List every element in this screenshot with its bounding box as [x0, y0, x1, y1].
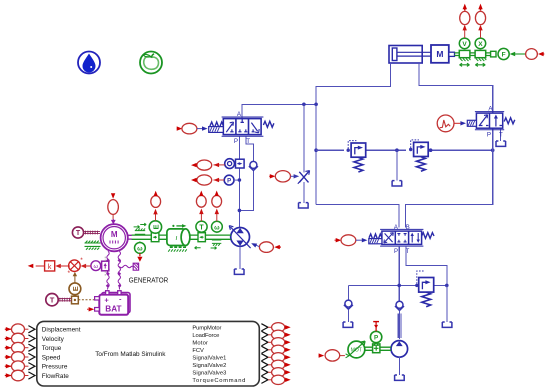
svg-text:FlowRate: FlowRate	[42, 373, 69, 380]
apple icon	[140, 52, 162, 74]
displacement sensor X1	[475, 4, 486, 67]
svg-text:P: P	[234, 138, 238, 145]
battery wire a	[106, 251, 110, 289]
node n7	[238, 178, 242, 182]
force sensor F1	[498, 48, 544, 59]
bottom manifold line	[349, 284, 447, 286]
svg-text:P: P	[374, 335, 378, 342]
output port row 7	[261, 368, 290, 377]
node n8	[238, 209, 242, 213]
check valve CV1	[249, 161, 258, 170]
wire left loop vertical	[315, 104, 317, 204]
node n5	[429, 148, 433, 152]
displacement sensor V1	[459, 4, 470, 67]
input port row 5	[5, 361, 35, 372]
pump P2	[391, 341, 408, 358]
wire U4 T jog right	[406, 246, 447, 285]
svg-text:FCV: FCV	[192, 348, 204, 354]
svg-text:To/From Matlab Simulink: To/From Matlab Simulink	[95, 351, 166, 358]
tank right column	[442, 322, 452, 327]
svg-text:B: B	[406, 225, 410, 231]
output port row 1	[261, 323, 290, 332]
svg-text:P: P	[227, 179, 231, 185]
svg-text:P: P	[394, 249, 398, 255]
tank under pump P1	[234, 269, 244, 274]
torque sensor E1	[149, 191, 161, 234]
electric motor M2	[101, 224, 132, 251]
load resistor R2	[119, 263, 138, 270]
node n1	[302, 103, 306, 107]
input port row 4	[5, 352, 35, 363]
tank under throttle	[299, 203, 309, 208]
wire pump to tank	[239, 246, 241, 269]
swash signal source W4	[250, 241, 281, 252]
relief valve RV2	[409, 140, 428, 171]
output port row 6	[261, 360, 290, 369]
node n2	[314, 103, 318, 107]
wire cylinder left port to junction	[316, 63, 390, 104]
svg-text:k: k	[48, 264, 52, 271]
svg-text:PumpMotor: PumpMotor	[192, 326, 221, 332]
svg-text:TorqueCommand: TorqueCommand	[192, 378, 245, 384]
svg-text:SignalValve3: SignalValve3	[192, 371, 226, 377]
speed sensor W6	[212, 191, 223, 233]
input port row 1	[5, 324, 35, 335]
input port row 6	[5, 370, 35, 381]
tachometer W8	[91, 256, 109, 276]
wire loop bottom	[316, 150, 493, 227]
coupler K1	[151, 233, 159, 242]
relief valve RV1	[347, 141, 366, 172]
svg-text:V: V	[462, 41, 467, 48]
input port row 2	[5, 333, 35, 344]
svg-text:T: T	[76, 230, 81, 237]
power sensor E2	[69, 272, 81, 297]
svg-text:Velocity: Velocity	[42, 336, 65, 343]
pump P1	[229, 226, 250, 249]
svg-text:LoadForce: LoadForce	[192, 333, 219, 339]
simulink interface block	[37, 321, 259, 386]
node n10	[445, 284, 449, 288]
motor MOT1	[346, 341, 366, 358]
node n9	[397, 284, 401, 288]
battery wire b	[118, 251, 122, 289]
node n6	[491, 148, 495, 152]
wire cylinder right port to valve U3 A	[419, 63, 493, 113]
svg-text:BAT: BAT	[105, 305, 121, 314]
svg-text:ω: ω	[214, 224, 220, 231]
wire to tank	[347, 309, 349, 322]
gain k1	[28, 261, 70, 271]
check valve CV3	[395, 301, 404, 310]
shaft MOT to pump	[365, 344, 391, 353]
flow sensor Q1	[191, 159, 244, 170]
relief valve RV3	[415, 271, 434, 307]
relief line	[316, 149, 493, 151]
tank under pump P2	[395, 375, 405, 380]
svg-text:SignalValve2: SignalValve2	[192, 363, 226, 369]
output port row 5	[261, 353, 290, 362]
signal source W1 for throttle	[269, 171, 299, 182]
battery B1	[87, 291, 130, 315]
svg-text:T: T	[499, 132, 503, 139]
valve U3 (2-position)	[467, 106, 515, 139]
tank left suction	[343, 322, 353, 327]
rod link to sensors	[455, 51, 497, 57]
wire pump P2 to tank	[398, 357, 400, 375]
svg-text:ω: ω	[137, 245, 143, 252]
svg-text:ω: ω	[94, 264, 99, 270]
hydraulic fluid icon	[78, 52, 100, 74]
svg-text:E: E	[71, 286, 80, 291]
speed sensor W5	[135, 242, 146, 262]
svg-text:A: A	[394, 225, 398, 231]
svg-text:GENERATOR: GENERATOR	[129, 277, 169, 284]
signal source W10 for motor	[319, 350, 345, 361]
left suction branch	[348, 285, 350, 300]
valve U4 (3-position 4-port)	[369, 225, 434, 255]
input port row 3	[5, 342, 35, 353]
pressure gauge P2g	[370, 322, 381, 346]
svg-text:+: +	[104, 295, 109, 304]
node n3	[314, 148, 318, 152]
pressure sensor P1	[191, 175, 239, 185]
svg-text:Motor: Motor	[192, 341, 208, 347]
wire drop to tank	[396, 150, 398, 180]
svg-text:T: T	[199, 224, 204, 231]
wire U2 P-line down to pump	[238, 136, 240, 227]
ramp source W2	[437, 115, 466, 132]
wire branch to throttle	[303, 104, 305, 203]
svg-text:Speed: Speed	[42, 354, 61, 361]
check valve CV2	[344, 300, 353, 309]
svg-text:E: E	[151, 224, 160, 229]
shaft mount hatch left	[134, 223, 147, 234]
signal source W7 to motor	[108, 193, 119, 224]
svg-text:F: F	[502, 52, 506, 59]
valve U2 (main 3-position)	[209, 111, 274, 145]
svg-text:M: M	[436, 49, 443, 59]
right column to tank	[446, 285, 448, 322]
wire valve U3 P down	[492, 128, 494, 150]
svg-text:Displacement: Displacement	[42, 327, 81, 334]
svg-text:Pressure: Pressure	[42, 364, 68, 371]
tank at valve U3 T	[496, 141, 506, 146]
wire valve U3 T to tank	[500, 128, 502, 141]
torque sensor T1	[196, 191, 207, 233]
shaft (mechanical)	[132, 235, 232, 239]
output port row 3	[261, 338, 290, 347]
throttle valve R1	[298, 171, 310, 184]
svg-text:SignalValve1: SignalValve1	[192, 356, 226, 362]
motor mount hatch	[85, 241, 101, 250]
mass M1	[431, 45, 455, 63]
heat port H1	[72, 296, 95, 304]
wire valve U2 A-port up to node	[242, 104, 316, 118]
thermal sensor T2	[72, 227, 100, 238]
tank on relief branch	[392, 181, 402, 186]
svg-text:Torque: Torque	[42, 345, 62, 352]
rotary load L1	[167, 224, 190, 252]
hydraulic cylinder J1	[389, 46, 431, 64]
coupler K2	[198, 233, 205, 242]
output port row 4	[261, 345, 290, 354]
node n4	[395, 148, 399, 152]
svg-text:P: P	[487, 132, 491, 139]
signal source W9 for valve U4	[335, 235, 368, 246]
suction pipe to pump P2	[398, 311, 401, 340]
multiplier X1	[68, 257, 91, 277]
wire U4 P down	[398, 246, 400, 301]
svg-text:T: T	[50, 296, 55, 305]
svg-text:X: X	[478, 41, 483, 48]
output port row 8	[261, 375, 290, 384]
shaft mount hatch right	[195, 240, 222, 249]
thermal sensor T3	[46, 294, 72, 306]
signal source W3 for valve U2	[177, 123, 208, 134]
wire U2 T-line jog to check valve column	[239, 136, 253, 210]
svg-text:M: M	[111, 230, 118, 239]
output port row 2	[261, 330, 290, 339]
